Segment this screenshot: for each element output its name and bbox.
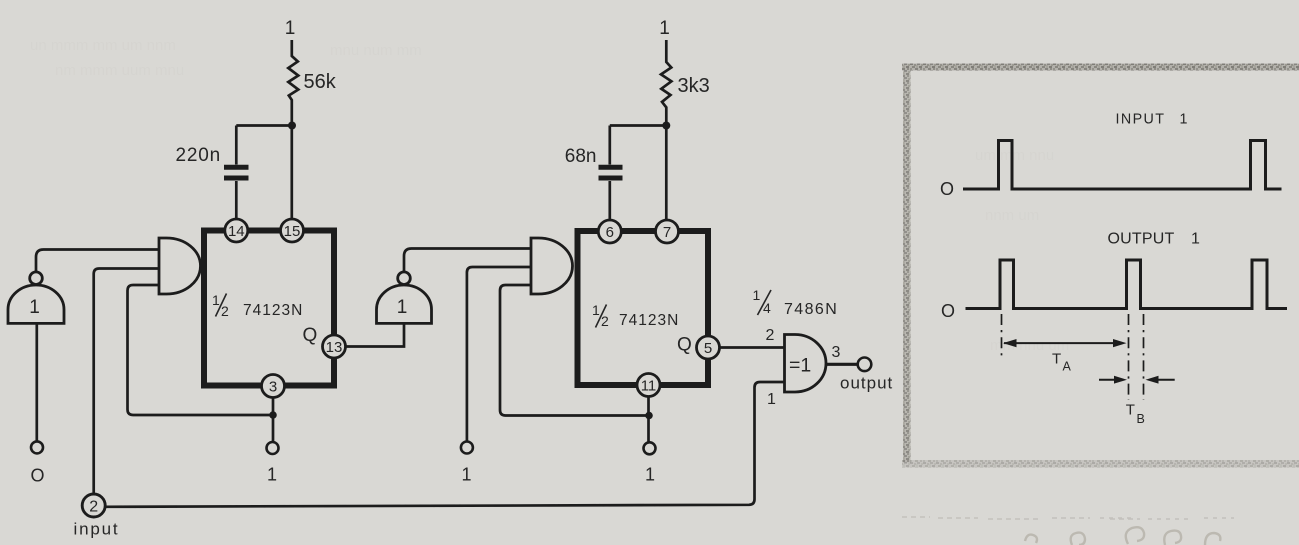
svg-text:um mm nnu: um mm nnu [975, 147, 1054, 164]
svg-text:3k3: 3k3 [678, 75, 710, 97]
svg-text:un mmm mm um nnm: un mmm mm um nnm [30, 37, 176, 54]
svg-text:output: output [840, 373, 893, 392]
svg-text:T: T [1126, 402, 1135, 419]
svg-text:220n: 220n [176, 145, 221, 166]
svg-text:6: 6 [606, 224, 614, 241]
svg-text:OUTPUT: OUTPUT [1108, 231, 1175, 248]
svg-text:2: 2 [601, 313, 609, 329]
svg-text:13: 13 [326, 339, 343, 356]
svg-text:1: 1 [29, 297, 40, 318]
svg-text:1: 1 [592, 302, 600, 318]
svg-text:3: 3 [269, 379, 277, 396]
svg-text:74123N: 74123N [243, 302, 303, 319]
svg-text:1: 1 [1180, 111, 1188, 127]
svg-text:O: O [30, 466, 44, 486]
svg-text:1: 1 [659, 18, 670, 39]
svg-text:1: 1 [267, 465, 277, 485]
svg-text:nnm um: nnm um [985, 207, 1039, 224]
svg-text:1: 1 [1191, 231, 1200, 248]
svg-text:68n: 68n [565, 146, 597, 167]
svg-text:2: 2 [221, 303, 229, 319]
svg-text:15: 15 [284, 223, 301, 240]
svg-text:14: 14 [228, 223, 245, 240]
svg-text:56k: 56k [304, 71, 337, 93]
svg-text:1: 1 [461, 465, 471, 485]
svg-text:1: 1 [767, 391, 776, 408]
svg-text:2: 2 [89, 498, 98, 515]
svg-text:5: 5 [704, 340, 712, 357]
svg-text:=1: =1 [789, 355, 811, 377]
svg-text:1: 1 [285, 18, 296, 39]
svg-text:Q: Q [677, 335, 692, 356]
svg-text:INPUT: INPUT [1116, 111, 1166, 127]
svg-text:11: 11 [641, 378, 657, 395]
svg-text:input: input [74, 520, 120, 539]
svg-text:1: 1 [212, 292, 220, 308]
svg-text:3: 3 [832, 344, 841, 361]
svg-text:7: 7 [663, 224, 671, 241]
svg-text:nm mmm uum mnu: nm mmm uum mnu [55, 62, 184, 79]
svg-text:1: 1 [397, 297, 408, 318]
svg-text:Q: Q [303, 325, 318, 346]
svg-text:O: O [941, 301, 955, 321]
svg-text:74123N: 74123N [619, 312, 679, 329]
svg-text:1: 1 [645, 465, 655, 485]
svg-text:7486N: 7486N [784, 301, 838, 318]
svg-text:2: 2 [766, 327, 775, 344]
svg-text:B: B [1137, 412, 1145, 426]
svg-text:O: O [940, 179, 954, 199]
svg-text:mnu num mm: mnu num mm [330, 42, 422, 59]
svg-text:A: A [1063, 360, 1072, 374]
svg-text:1: 1 [753, 287, 761, 303]
svg-text:T: T [1052, 351, 1061, 368]
